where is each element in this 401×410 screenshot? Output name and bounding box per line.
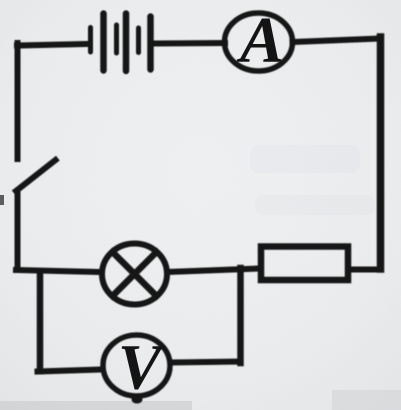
svg-text:V: V — [118, 332, 166, 404]
svg-text:A: A — [236, 4, 284, 77]
